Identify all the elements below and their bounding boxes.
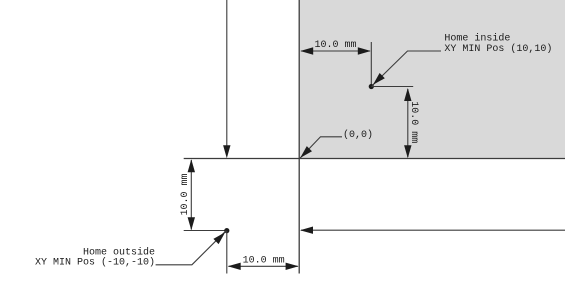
wire: horizontal line right of home-inside dot [371, 86, 413, 88]
wire: extension line below home-outside dot [226, 231, 228, 274]
dimension: right 10.0 mm vertical [407, 89, 409, 157]
svg-text:10.0 mm: 10.0 mm [180, 173, 191, 215]
wire: bed left edge vertical line x=299.2 [298, 0, 300, 274]
svg-text:XY MIN Pos (10,10): XY MIN Pos (10,10) [444, 43, 552, 55]
wire: bed bottom edge line y=158.5 [184, 158, 565, 160]
node: home outside point dot [224, 228, 229, 233]
svg-text:10.0 mm: 10.0 mm [314, 40, 356, 51]
dimension: bottom 10.0 mm horizontal [229, 265, 298, 267]
wire: extension line from top dim to home-inside point [370, 42, 372, 87]
svg-text:10.0 mm: 10.0 mm [408, 101, 419, 143]
dimension: left 10.0 mm vertical [190, 160, 192, 230]
node: home inside point dot [369, 84, 374, 89]
svg-text:XY MIN Pos (-10,-10): XY MIN Pos (-10,-10) [35, 257, 155, 269]
svg-text:Home inside: Home inside [444, 33, 510, 45]
leader: (0,0) label line [300, 137, 342, 158]
dimension: top 10.0 mm horizontal [301, 50, 370, 52]
wire: long horizontal line from right edge with left arrow [301, 229, 565, 231]
leader: home inside label line [372, 51, 441, 86]
svg-text:(0,0): (0,0) [343, 129, 373, 141]
leader: home outside label line [156, 231, 226, 265]
svg-text:Home outside: Home outside [83, 246, 155, 258]
bed area (gray rectangle, print bed) [299, 0, 565, 159]
wire: upper extension line x=226.8 with down arrow [226, 0, 228, 150]
wire: bottom tick line to home-outside dot [184, 230, 225, 232]
svg-text:10.0 mm: 10.0 mm [243, 256, 285, 267]
